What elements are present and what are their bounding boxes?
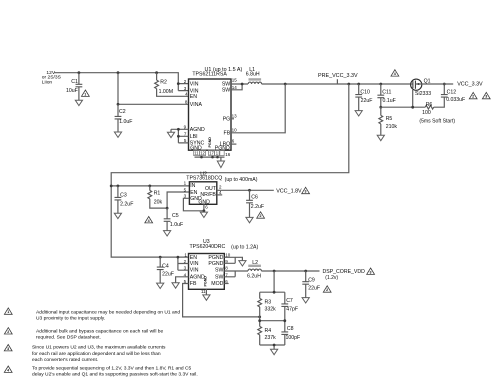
note 4 text xyxy=(32,366,198,378)
note marker triangle 4 (above Q1) xyxy=(391,70,399,76)
note marker triangle 2 (VCC_3.3V) xyxy=(469,92,477,98)
wire: U3 PGND pins to ground xyxy=(224,257,242,263)
svg-text:Si2333: Si2333 xyxy=(415,91,431,97)
svg-text:47pF: 47pF xyxy=(286,307,298,313)
svg-text:2: 2 xyxy=(472,95,474,99)
svg-text:332k: 332k xyxy=(265,307,277,313)
resistor R4 xyxy=(258,326,276,341)
svg-text:2: 2 xyxy=(326,288,328,292)
note 3 text xyxy=(32,345,166,363)
U2 pin names xyxy=(190,183,217,206)
resistor R5 xyxy=(379,107,397,135)
svg-text:VIN: VIN xyxy=(190,81,199,87)
note marker triangle 1 (input capacitance) xyxy=(82,90,90,96)
svg-text:100pF: 100pF xyxy=(286,335,301,341)
svg-text:EN: EN xyxy=(190,94,197,100)
svg-text:1.00M: 1.00M xyxy=(159,89,173,95)
svg-text:20k: 20k xyxy=(154,200,163,206)
wire: U3 SW pins to L2 xyxy=(224,271,248,277)
U1 bottom pad pins 11 12 17 1 16 xyxy=(194,150,231,157)
svg-text:EN: EN xyxy=(190,255,197,261)
svg-text:Additional bulk and bypass cap: Additional bulk and bypass capacitance o… xyxy=(36,328,164,334)
wire: SW output to L1 xyxy=(231,83,248,90)
svg-text:Additional input capacitance m: Additional input capacitance may be need… xyxy=(36,309,180,315)
wire: U1 AGND LBI SYNC to analog ground xyxy=(171,128,189,143)
svg-text:22uF: 22uF xyxy=(308,285,320,291)
ground (R5) xyxy=(377,135,384,140)
svg-text:TPS62111RSA: TPS62111RSA xyxy=(192,71,227,77)
ground (C9) xyxy=(302,298,309,303)
U2 pin numbers xyxy=(184,181,222,210)
svg-text:C3: C3 xyxy=(120,193,127,199)
svg-text:100: 100 xyxy=(422,110,431,116)
svg-text:R3: R3 xyxy=(265,300,272,306)
wire: DSP_CORE_VDD rail xyxy=(261,270,319,273)
note marker triangle 2 (C9) xyxy=(323,286,331,292)
svg-text:PG: PG xyxy=(223,116,231,122)
svg-text:13: 13 xyxy=(232,113,238,118)
svg-text:6.2uH: 6.2uH xyxy=(247,273,261,279)
svg-text:14: 14 xyxy=(232,85,238,90)
ground (C10) xyxy=(355,111,362,116)
svg-text:TPS62040DRC: TPS62040DRC xyxy=(190,244,226,250)
wire: U1 ground bus below pads xyxy=(195,156,225,161)
svg-text:2.2uF: 2.2uF xyxy=(120,202,133,208)
note marker triangle 3 (notes) xyxy=(4,345,12,351)
node: DSP_CORE_VDD net label xyxy=(323,269,366,281)
wire: Q1 drain to VCC_3.3V xyxy=(422,83,453,85)
capacitor C4 xyxy=(157,257,174,283)
svg-text:NR/FB: NR/FB xyxy=(200,192,216,198)
ground (C1) xyxy=(75,100,82,105)
svg-text:for each rail are application: for each rail are application dependent … xyxy=(32,351,161,357)
wire: U3 MOD stub xyxy=(224,283,228,285)
svg-text:VCC_3.3V: VCC_3.3V xyxy=(457,82,483,88)
transistor Q1 Si2333 PMOS xyxy=(411,79,432,98)
resistor R6 xyxy=(422,97,444,116)
svg-text:L2: L2 xyxy=(252,260,258,266)
capacitor C6 xyxy=(246,190,264,217)
svg-text:237k: 237k xyxy=(265,335,277,341)
svg-text:PRE_VCC_3.3V: PRE_VCC_3.3V xyxy=(318,73,358,79)
svg-text:VINA: VINA xyxy=(190,102,203,108)
note marker triangle 2 (notes) xyxy=(4,328,12,334)
capacitor C2 xyxy=(115,104,133,132)
wire: U3 FB to divider xyxy=(183,284,262,319)
U1 pin names (left) xyxy=(190,81,205,151)
svg-text:10uF: 10uF xyxy=(66,88,78,94)
svg-text:VIN: VIN xyxy=(190,268,199,274)
svg-text:1: 1 xyxy=(7,310,9,314)
svg-text:SW: SW xyxy=(215,268,223,274)
svg-text:SW: SW xyxy=(222,88,230,94)
svg-text:C2: C2 xyxy=(119,109,126,115)
op-amp U1 regulator TPS62111RSA box xyxy=(189,67,243,150)
ground (C5) xyxy=(164,231,171,236)
wire: input rail 12V to U1 VIN pins xyxy=(54,71,189,90)
wire: feedback divider frame xyxy=(258,271,286,349)
svg-text:Since U1 powers U2 and U3, the: Since U1 powers U2 and U3, the maximum a… xyxy=(32,345,166,351)
resistor R3 xyxy=(258,298,276,312)
svg-text:R5: R5 xyxy=(386,116,393,122)
svg-text:2.2uF: 2.2uF xyxy=(251,204,264,210)
note marker triangle 3 (VCC_1.8V) xyxy=(302,187,310,193)
inductor L2 6.2uH xyxy=(247,260,261,279)
svg-text:Liion: Liion xyxy=(42,79,53,85)
svg-text:PGND: PGND xyxy=(208,137,212,148)
note marker triangle 3 (DSP_CORE_VDD) xyxy=(367,268,375,274)
svg-text:210k: 210k xyxy=(386,124,398,130)
svg-text:(up to 400mA): (up to 400mA) xyxy=(225,177,258,183)
svg-text:C9: C9 xyxy=(308,277,315,283)
svg-text:10: 10 xyxy=(232,128,238,133)
wire: feed from PRE_VCC down to U2/U3 input bus xyxy=(111,84,349,257)
svg-text:SW: SW xyxy=(215,274,223,280)
inductor L1 6.8uH xyxy=(246,67,262,84)
svg-text:3: 3 xyxy=(370,270,372,274)
svg-text:MOD: MOD xyxy=(211,281,223,287)
svg-text:16: 16 xyxy=(225,152,231,157)
svg-text:12: 12 xyxy=(200,151,205,156)
wire: U3 pad pin 11 to ground xyxy=(205,289,207,295)
note marker triangle 4 (R1/C5 delay) xyxy=(145,217,153,223)
ground (U1 power ground) xyxy=(217,161,224,168)
ground (C2) xyxy=(114,132,121,137)
svg-text:6.8uH: 6.8uH xyxy=(246,72,260,78)
svg-text:R2: R2 xyxy=(160,79,167,85)
capacitor C12 xyxy=(441,83,465,103)
svg-text:required. See DSP datasheet.: required. See DSP datasheet. xyxy=(36,335,101,341)
wire: U3 VIN ties xyxy=(159,256,189,271)
svg-text:C5: C5 xyxy=(172,213,179,219)
resistor R2 xyxy=(155,73,189,97)
svg-text:22uF: 22uF xyxy=(361,98,373,104)
svg-text:(1.2v): (1.2v) xyxy=(325,275,338,281)
svg-text:1: 1 xyxy=(84,92,86,96)
svg-text:11: 11 xyxy=(201,289,206,294)
capacitor C1 xyxy=(66,73,82,101)
capacitor C11 xyxy=(377,84,395,109)
note marker triangle 1 (notes) xyxy=(4,308,12,314)
op-amp U3 regulator TPS62040DRC box xyxy=(189,239,259,289)
svg-text:TPS73618DCQ: TPS73618DCQ xyxy=(186,176,222,182)
svg-text:R4: R4 xyxy=(265,328,272,334)
svg-text:4: 4 xyxy=(148,219,150,223)
ground (C3) xyxy=(114,213,121,218)
U3 pin numbers xyxy=(184,253,231,294)
capacitor C10 xyxy=(355,84,372,111)
svg-text:3: 3 xyxy=(305,190,307,194)
capacitor C7 xyxy=(281,298,298,312)
wire: U2 GND loop to ground xyxy=(183,198,205,212)
svg-text:each converter's rated current: each converter's rated current. xyxy=(32,357,98,363)
ground (U1 AGND) xyxy=(167,132,174,137)
ground (U3 PGND) xyxy=(239,261,246,266)
svg-text:4: 4 xyxy=(394,72,396,76)
svg-text:C4: C4 xyxy=(162,263,169,269)
wire: U3 AGND xyxy=(176,277,189,283)
wire: U1 LBO stub pin 6 xyxy=(231,143,236,145)
svg-text:FB: FB xyxy=(224,131,231,137)
svg-text:LBI: LBI xyxy=(190,134,198,140)
capacitor C9 xyxy=(302,271,320,298)
U3 pin names (left) xyxy=(190,255,205,287)
ground (U2 GND) xyxy=(200,212,207,217)
svg-text:2: 2 xyxy=(260,214,262,218)
svg-text:0.033uF: 0.033uF xyxy=(446,97,465,103)
ground (C6) xyxy=(246,217,253,222)
svg-text:VIN: VIN xyxy=(190,261,199,267)
svg-text:C11: C11 xyxy=(382,90,391,96)
svg-text:R1: R1 xyxy=(154,190,161,196)
svg-text:C6: C6 xyxy=(251,195,258,201)
ground (C4) xyxy=(157,283,164,288)
svg-text:R6: R6 xyxy=(426,102,433,108)
note 2 text xyxy=(36,328,164,340)
svg-text:15: 15 xyxy=(232,77,238,82)
wire: U1 PG stub pin 13 xyxy=(231,118,234,120)
svg-text:(up to 1.2A): (up to 1.2A) xyxy=(231,244,258,250)
svg-text:(5ms Soft Start): (5ms Soft Start) xyxy=(419,118,455,124)
U1 pin names (right) xyxy=(208,82,231,152)
svg-text:C1: C1 xyxy=(71,79,78,85)
svg-text:0.1uF: 0.1uF xyxy=(383,98,396,104)
wire: branch to U2 IN xyxy=(110,185,190,188)
capacitor C8 xyxy=(281,326,300,341)
svg-text:EN: EN xyxy=(190,190,197,196)
op-amp U2 regulator TPS73618DCQ box xyxy=(186,172,257,205)
capacitor C5 xyxy=(164,208,183,231)
svg-text:PGND: PGND xyxy=(204,276,208,287)
note 1 text xyxy=(36,309,180,321)
svg-text:PGND: PGND xyxy=(208,255,223,261)
note marker triangle 3 (VCC_3.3V) xyxy=(482,92,490,98)
svg-text:C7: C7 xyxy=(286,298,293,304)
svg-text:3: 3 xyxy=(485,95,487,99)
svg-text:1.0uF: 1.0uF xyxy=(170,222,183,228)
svg-text:PGND: PGND xyxy=(208,261,223,267)
wire: PRE_VCC_3.3V rail xyxy=(262,79,411,85)
svg-text:delay U2's enable and Q1 and i: delay U2's enable and Q1 and its support… xyxy=(32,372,198,378)
svg-text:C12: C12 xyxy=(447,89,457,95)
svg-text:1.0uF: 1.0uF xyxy=(119,119,132,125)
svg-text:4: 4 xyxy=(7,368,9,372)
svg-text:AGND: AGND xyxy=(190,127,205,133)
svg-text:C8: C8 xyxy=(287,326,294,332)
capacitor C3 xyxy=(115,186,134,213)
wire: U2 OUT to VCC_1.8V xyxy=(217,189,274,192)
ground (U3 AGND) xyxy=(172,283,179,288)
resistor R1 xyxy=(148,186,189,210)
svg-text:VCC_1.8V: VCC_1.8V xyxy=(276,189,302,195)
ground (U3 pad) xyxy=(203,295,210,300)
ground (divider) xyxy=(271,349,278,354)
svg-text:22uF: 22uF xyxy=(162,271,174,277)
wire: VINA branch xyxy=(117,73,189,106)
svg-text:2: 2 xyxy=(7,330,9,334)
svg-text:3: 3 xyxy=(7,347,9,351)
svg-text:To provide sequential sequenci: To provide sequential sequencing of 1.2V… xyxy=(32,366,192,372)
node: 12V input source label xyxy=(42,70,62,85)
wire: Q1 gate to soft-start node xyxy=(381,90,425,109)
svg-text:U3 proximity to the input supp: U3 proximity to the input supply. xyxy=(36,315,105,321)
wire: U1 FB sense to output xyxy=(231,84,285,133)
svg-text:C10: C10 xyxy=(360,90,370,96)
note marker triangle 4 (notes) xyxy=(4,366,12,372)
note marker triangle 2 (C6) xyxy=(257,212,265,218)
svg-text:11: 11 xyxy=(194,151,199,156)
U1 pin numbers xyxy=(184,77,238,143)
svg-text:IN: IN xyxy=(190,183,195,189)
wire: U2 NR/FB stub xyxy=(217,194,222,196)
svg-text:FB: FB xyxy=(190,281,197,287)
svg-text:17: 17 xyxy=(209,151,214,156)
U3 pin names (right) xyxy=(204,255,224,287)
